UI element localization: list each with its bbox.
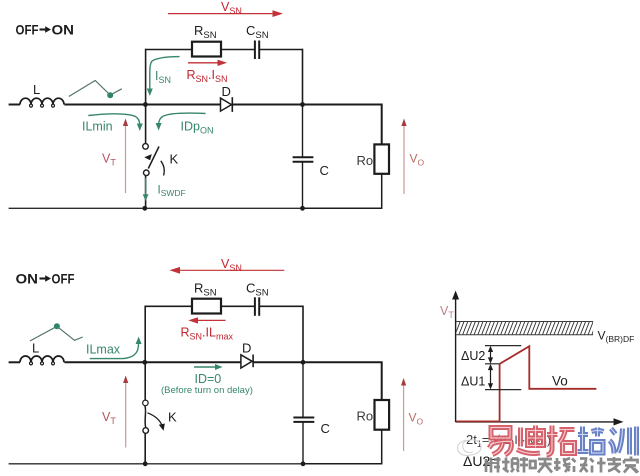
svg-text:VO: VO — [409, 411, 424, 427]
rail junction at switch — [143, 461, 148, 466]
bottom rail — [9, 463, 303, 465]
inductor L — [9, 82, 64, 107]
svg-text:ID=0: ID=0 — [195, 372, 222, 386]
wire snubber left vertical — [144, 306, 146, 363]
node B junction — [300, 102, 305, 107]
tick Vo level — [485, 389, 521, 391]
wire main (node A to diode) — [146, 104, 221, 106]
svg-text:VT: VT — [102, 152, 116, 168]
arrow ID=0 (green, right) — [161, 364, 253, 396]
logo char 易 (red) — [489, 428, 511, 456]
svg-text:RSN.ISN: RSN.ISN — [187, 68, 228, 84]
arrow IDpON (green) — [156, 113, 214, 135]
wire node A down to switch — [145, 105, 147, 144]
wire main (node C to diode) — [145, 361, 241, 363]
wire CSN to right corner — [260, 49, 303, 51]
arrow RSN·ISN (red) — [187, 60, 228, 84]
svg-text:IDpON: IDpON — [181, 120, 214, 136]
diode D — [221, 84, 233, 112]
resistor Ro — [357, 144, 390, 173]
rail junction at capacitor — [300, 206, 305, 211]
bottom rail — [9, 207, 303, 209]
svg-text:C: C — [321, 421, 330, 436]
svg-text:OFF: OFF — [16, 22, 39, 38]
svg-text:VT: VT — [440, 304, 454, 320]
wire node C down to switch — [144, 362, 146, 400]
logo char 训 (blue) — [610, 427, 637, 456]
wire switch down to rail — [144, 433, 146, 464]
logo char 拓 (red) — [547, 426, 575, 456]
inductor L — [9, 341, 64, 365]
svg-text:Ro: Ro — [357, 153, 374, 168]
label ON→OFF — [16, 271, 75, 287]
wire snubber right vertical down to node B — [302, 49, 304, 105]
svg-text:L: L — [32, 341, 39, 356]
doodle scribble — [458, 440, 481, 456]
TOP CIRCUIT — [9, 0, 425, 211]
svg-text:RSN: RSN — [194, 281, 217, 299]
diode D — [241, 341, 253, 369]
wire main (diode to node B) — [232, 104, 302, 106]
BOTTOM CIRCUIT — [9, 257, 424, 466]
arrow ISN (green curved, down into node A) — [147, 57, 180, 96]
wire node D down to capacitor C — [302, 362, 304, 417]
svg-text:CSN: CSN — [246, 281, 269, 299]
capacitor CSN — [246, 23, 269, 59]
dimension arrow ΔU2 — [488, 346, 493, 364]
svg-text:K: K — [170, 152, 179, 167]
node C junction — [142, 360, 147, 365]
svg-text:ΔU1: ΔU1 — [461, 375, 485, 389]
svg-text:ΔU2: ΔU2 — [461, 349, 485, 363]
WATERMARK — [486, 426, 638, 473]
waveform VT trace (red) — [456, 346, 596, 421]
svg-text:CSN: CSN — [246, 23, 269, 41]
rail junction at switch — [142, 206, 147, 211]
svg-text:ISN: ISN — [155, 69, 171, 85]
svg-text:VT: VT — [102, 410, 116, 426]
switch K (closed, opening) — [143, 400, 177, 433]
resistor RSN — [192, 42, 221, 57]
arrow ILmin (green) — [82, 114, 143, 134]
wire snubber top line — [146, 49, 192, 51]
wire capacitor C down to rail — [302, 422, 304, 464]
wire CSN to right corner — [260, 305, 303, 307]
node A junction — [143, 102, 148, 107]
arrow RSN·ILmax (red, pointing left) — [181, 317, 234, 341]
svg-text:Ro: Ro — [357, 409, 374, 424]
wire main (diode to node D) — [253, 361, 303, 363]
wire snubber left vertical — [145, 49, 147, 105]
arrow ISWDF (green, down) — [143, 178, 186, 201]
svg-text:ON: ON — [16, 271, 39, 287]
logo char 培 (blue) — [578, 427, 604, 454]
wire main (node D to Ro corner) — [303, 362, 382, 400]
wire between RSN and CSN — [221, 49, 254, 51]
svg-text:(Before turn on delay): (Before turn on delay) — [161, 385, 253, 396]
svg-text:L: L — [33, 82, 40, 97]
svg-text:OFF: OFF — [52, 271, 75, 287]
node D junction — [301, 360, 306, 365]
dimension arrow ΔU1 — [488, 364, 493, 390]
arrow VO (red, up) — [401, 119, 424, 195]
resistor Ro — [357, 400, 390, 430]
svg-text:D: D — [222, 84, 231, 99]
tick mid level — [485, 363, 499, 365]
svg-text:ILmax: ILmax — [86, 343, 121, 357]
svg-text:ILmin: ILmin — [82, 120, 113, 134]
resistor RSN — [192, 299, 221, 314]
wire Ro down to rail corner — [303, 430, 382, 464]
wire snubber top line — [145, 305, 192, 307]
svg-text:D: D — [242, 341, 251, 356]
arrow VT (red, up) — [102, 376, 128, 448]
capacitor C — [293, 157, 329, 178]
wire main (L to node C) — [64, 361, 145, 363]
hatched breakdown band V(BR)DF — [450, 320, 634, 344]
wire capacitor C down to rail — [302, 162, 304, 209]
GRAPH — [440, 291, 634, 470]
svg-text:C: C — [320, 163, 329, 178]
wire switch down to rail — [145, 176, 147, 209]
switch K (open) — [143, 144, 179, 176]
wire node B down to capacitor C — [302, 105, 304, 158]
arrow ILmax (green curved, up into snubber) — [86, 337, 142, 359]
x axis — [456, 418, 624, 425]
svg-text:Vo: Vo — [552, 374, 568, 389]
wire Ro down to rail corner — [303, 174, 382, 209]
arrow VO (red, up) — [401, 378, 424, 451]
svg-text:VSN: VSN — [221, 257, 242, 273]
y axis — [452, 291, 459, 423]
logo char 迪 (red) — [517, 426, 544, 454]
wire snubber right vertical down to node D — [302, 306, 304, 363]
capacitor C — [293, 418, 329, 437]
watermark text 射频和天线设计专家 (gray) — [486, 457, 638, 473]
svg-text:RSN.ILmax: RSN.ILmax — [181, 326, 234, 342]
svg-text:RSN: RSN — [194, 23, 217, 41]
arrow VSN (red, pointing right) — [168, 0, 283, 17]
svg-text:VSN: VSN — [221, 0, 242, 16]
svg-text:VO: VO — [410, 152, 425, 168]
svg-text:ISWDF: ISWDF — [158, 185, 186, 199]
arrow VT (red, up) — [102, 119, 128, 194]
tick peak level — [485, 345, 521, 347]
arrow VSN (red, pointing left) — [170, 257, 285, 274]
label OFF→ON — [16, 22, 75, 38]
svg-text:V(BR)DF: V(BR)DF — [598, 329, 635, 345]
capacitor CSN — [246, 281, 269, 316]
probe zigzag (green) — [69, 81, 122, 99]
svg-text:ON: ON — [52, 22, 75, 38]
wire main top (L to node A) — [64, 104, 145, 106]
probe zigzag (green) — [30, 323, 83, 341]
rail junction at capacitor — [301, 461, 306, 466]
svg-text:K: K — [168, 410, 177, 425]
wire main (node B to Ro corner) — [303, 105, 382, 145]
wire between RSN and CSN — [221, 305, 254, 307]
